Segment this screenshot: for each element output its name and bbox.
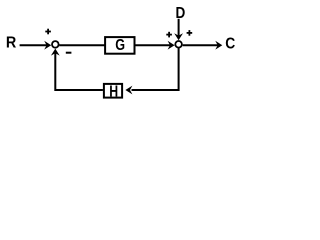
- block H: [104, 83, 122, 100]
- wire G to summing junction S2: [136, 44, 171, 46]
- arrowhead into S2: [168, 41, 175, 50]
- svg-text:R: R: [6, 35, 16, 52]
- wire H to S1 (left then up): [55, 53, 103, 91]
- svg-text:H: H: [109, 83, 118, 100]
- arrowhead into H: [125, 86, 132, 95]
- arrowhead into S1: [44, 41, 51, 50]
- summing junction S2: [175, 41, 182, 48]
- wire S2 to C: [183, 44, 218, 46]
- arrowhead up into S1: [51, 49, 60, 56]
- wire D down to S2: [178, 19, 180, 36]
- wire R to summing junction S1: [20, 44, 47, 46]
- svg-text:C: C: [225, 35, 235, 52]
- summing junction S1: [52, 41, 59, 48]
- arrowhead at C: [215, 41, 222, 50]
- svg-text:G: G: [115, 37, 125, 54]
- sign + at S1 input: [45, 29, 51, 35]
- wire S1 to block G: [59, 44, 105, 46]
- sign - at S1 feedback input: [66, 52, 72, 54]
- sign + right of D arrow: [187, 30, 193, 36]
- svg-text:D: D: [176, 5, 186, 22]
- block G: [105, 37, 134, 54]
- arrowhead D into S2: [174, 33, 183, 40]
- sign + left of D arrow: [166, 32, 172, 38]
- wire feedback from S2 down and left to H: [132, 48, 179, 90]
